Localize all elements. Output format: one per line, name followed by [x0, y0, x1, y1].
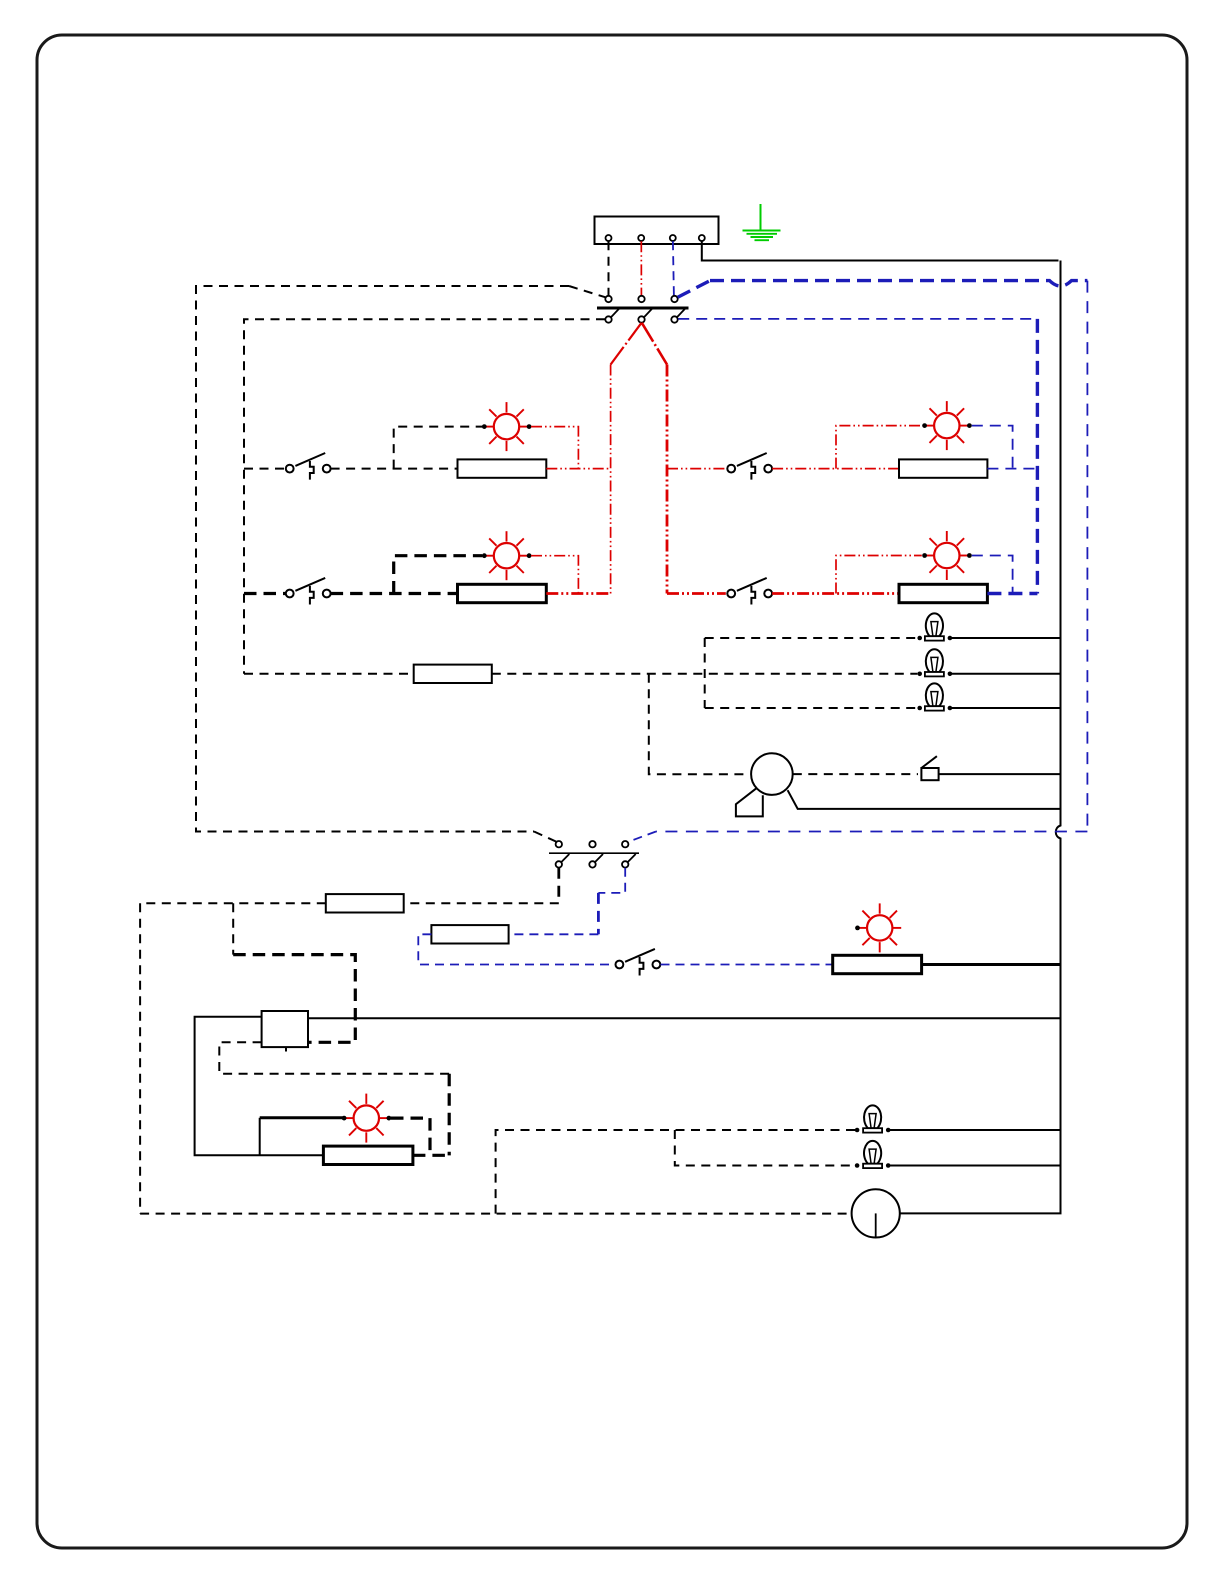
wire bulbs lower feed	[496, 1130, 855, 1214]
wire red rail right	[666, 365, 669, 594]
wire branch x233	[232, 903, 234, 954]
junction bulb L1 left	[917, 636, 922, 641]
wire row2R blue out	[987, 592, 1037, 595]
wire bulb3 out	[950, 707, 1061, 709]
wire bulb3 feed	[705, 707, 918, 709]
switch SW5	[616, 949, 661, 976]
wire lamp H6 feed	[260, 1116, 343, 1119]
connector block J1	[595, 217, 719, 245]
bulb L5	[863, 1141, 882, 1168]
wire S1 bottom-right blue	[678, 318, 1037, 320]
connector J1 pin 2	[638, 235, 644, 241]
wire J1-3 to selector S1 (blue)	[673, 241, 674, 295]
connector J1 pin 3	[670, 235, 676, 241]
wire row2R lamp tee	[836, 556, 922, 594]
wire R6 left	[140, 902, 326, 904]
wire row3 b	[492, 673, 918, 675]
wire S1 top-right blue diag	[678, 281, 710, 298]
resistor R7	[431, 925, 508, 943]
lamp H3	[922, 401, 972, 450]
wire blue top bold	[710, 281, 1087, 286]
junction bulb L3 right	[948, 706, 953, 711]
thermal switch TH1	[921, 756, 938, 780]
wire blue to R7	[509, 933, 599, 935]
wire row1L lamp red	[531, 427, 578, 469]
lamp H4	[922, 531, 972, 580]
resistor R9	[323, 1146, 413, 1164]
junction bulb L2 left	[917, 672, 922, 677]
switch SW4	[727, 578, 772, 605]
wire J1-1 to selector S1	[608, 241, 610, 295]
meter M2	[852, 1189, 900, 1237]
wire left rail lower	[139, 903, 141, 1213]
wire J1-4 to right bus	[702, 241, 1059, 260]
wire S1 bottom-left to left rail	[244, 319, 605, 674]
resistor R1	[458, 459, 547, 477]
wire K1 right long	[308, 1017, 1061, 1019]
wire row1L b	[331, 468, 458, 470]
wire thermal out	[939, 773, 1061, 775]
bulb L4	[863, 1105, 882, 1132]
motor M1	[736, 753, 793, 816]
wire right bus (black)	[900, 261, 1061, 1214]
lamp H2	[482, 531, 532, 580]
switch SW2	[286, 578, 331, 605]
junction bulb L4 right	[886, 1128, 891, 1133]
wire heavy jog	[233, 955, 355, 1043]
wire row2R a	[667, 592, 726, 595]
wire SW5 out blue	[661, 964, 833, 966]
wire bulb5 out	[888, 1165, 1060, 1167]
wire K1 lower left dashed	[219, 1042, 449, 1073]
wire upper loop top	[196, 286, 569, 832]
junction bulb L4 left	[855, 1128, 860, 1133]
wire row1R b	[772, 468, 899, 470]
wire S2 blue down	[598, 868, 625, 893]
wire bulb bracket lower	[675, 1130, 855, 1166]
bulb L3	[925, 683, 944, 710]
wire S2 blue down bold	[597, 893, 600, 934]
resistor R4	[899, 459, 987, 477]
wire row2L red out	[546, 592, 610, 595]
wire J1-2 to selector S1 (red)	[640, 241, 642, 295]
bulb L2	[925, 649, 944, 676]
wire row1R a	[667, 468, 726, 470]
wire R7 left blue	[418, 934, 615, 964]
wire bulb2 out	[950, 673, 1061, 675]
wire R9 out heavy	[413, 1154, 449, 1157]
junction bulb L5 right	[886, 1163, 891, 1168]
wire row1R lamp tee	[836, 426, 922, 469]
switch SW1	[286, 453, 331, 480]
wire S2 row left	[404, 902, 559, 904]
wire row1L a	[244, 468, 286, 470]
lamp H6	[342, 1094, 392, 1143]
wire row2R b	[772, 592, 899, 595]
wire R8 out	[922, 963, 1061, 966]
resistor R3	[414, 665, 492, 683]
wire bulb1 out	[950, 637, 1061, 639]
resistor R5	[899, 584, 987, 602]
wire row2L a	[244, 592, 286, 595]
ground	[743, 204, 781, 240]
switch SW3	[727, 453, 772, 480]
connector J1 pin 1	[606, 235, 612, 241]
wire motor feed	[649, 674, 749, 774]
wire row2R lamp blue	[972, 556, 1013, 594]
wire lamp H6 branch	[259, 1118, 261, 1155]
resistor R8	[833, 955, 922, 973]
wire K1 left	[195, 1017, 324, 1155]
junction bulb L3 left	[917, 706, 922, 711]
wire row3 a	[244, 673, 414, 675]
selector S1	[597, 296, 689, 323]
wire row1L lamp jog	[394, 427, 483, 469]
wire blue diag to S2	[629, 832, 657, 842]
wire blue rail bold	[1036, 319, 1039, 594]
resistor R6	[326, 894, 404, 912]
wire S2 bottom-left down	[557, 868, 560, 904]
selector S2	[549, 841, 639, 868]
wire red rail left	[610, 365, 612, 594]
wire bulb1 feed	[705, 637, 918, 639]
wire fork left diag	[611, 323, 642, 365]
wire row1R blue out	[987, 468, 1037, 470]
wire row2L lamp jog	[394, 556, 483, 594]
wire row1R lamp blue	[972, 426, 1013, 469]
wire heavy drop x449	[448, 1074, 451, 1156]
wire fork right diag	[642, 323, 667, 365]
wire diag to S1 top-left	[569, 286, 605, 297]
connector J1 pin 4	[699, 235, 705, 241]
wire blue mid horizontal	[656, 831, 1087, 833]
wire bulb4 out	[888, 1129, 1060, 1131]
wire row2L b	[331, 592, 458, 595]
relay K1	[262, 1011, 308, 1047]
wire motor out dashed	[793, 773, 918, 775]
stub under K1	[285, 1047, 287, 1051]
wire diag to S2 top-left	[534, 832, 556, 842]
junction bulb L2 right	[948, 672, 953, 677]
lamp H1	[482, 402, 532, 451]
wire row2L lamp red	[531, 556, 578, 594]
junction bulb L1 right	[948, 636, 953, 641]
wire bulb bracket	[704, 638, 706, 708]
junction bulb L5 left	[855, 1163, 860, 1168]
wire lamp H6 out heavy	[391, 1118, 430, 1155]
wire blue right rail	[1086, 281, 1088, 832]
resistor R2	[458, 584, 547, 602]
bulb L1	[925, 613, 944, 640]
wire motor leg	[788, 790, 1061, 809]
wire row1L red out	[546, 468, 610, 470]
wire bottom dashed	[140, 1213, 851, 1215]
lamp H5	[855, 903, 901, 952]
